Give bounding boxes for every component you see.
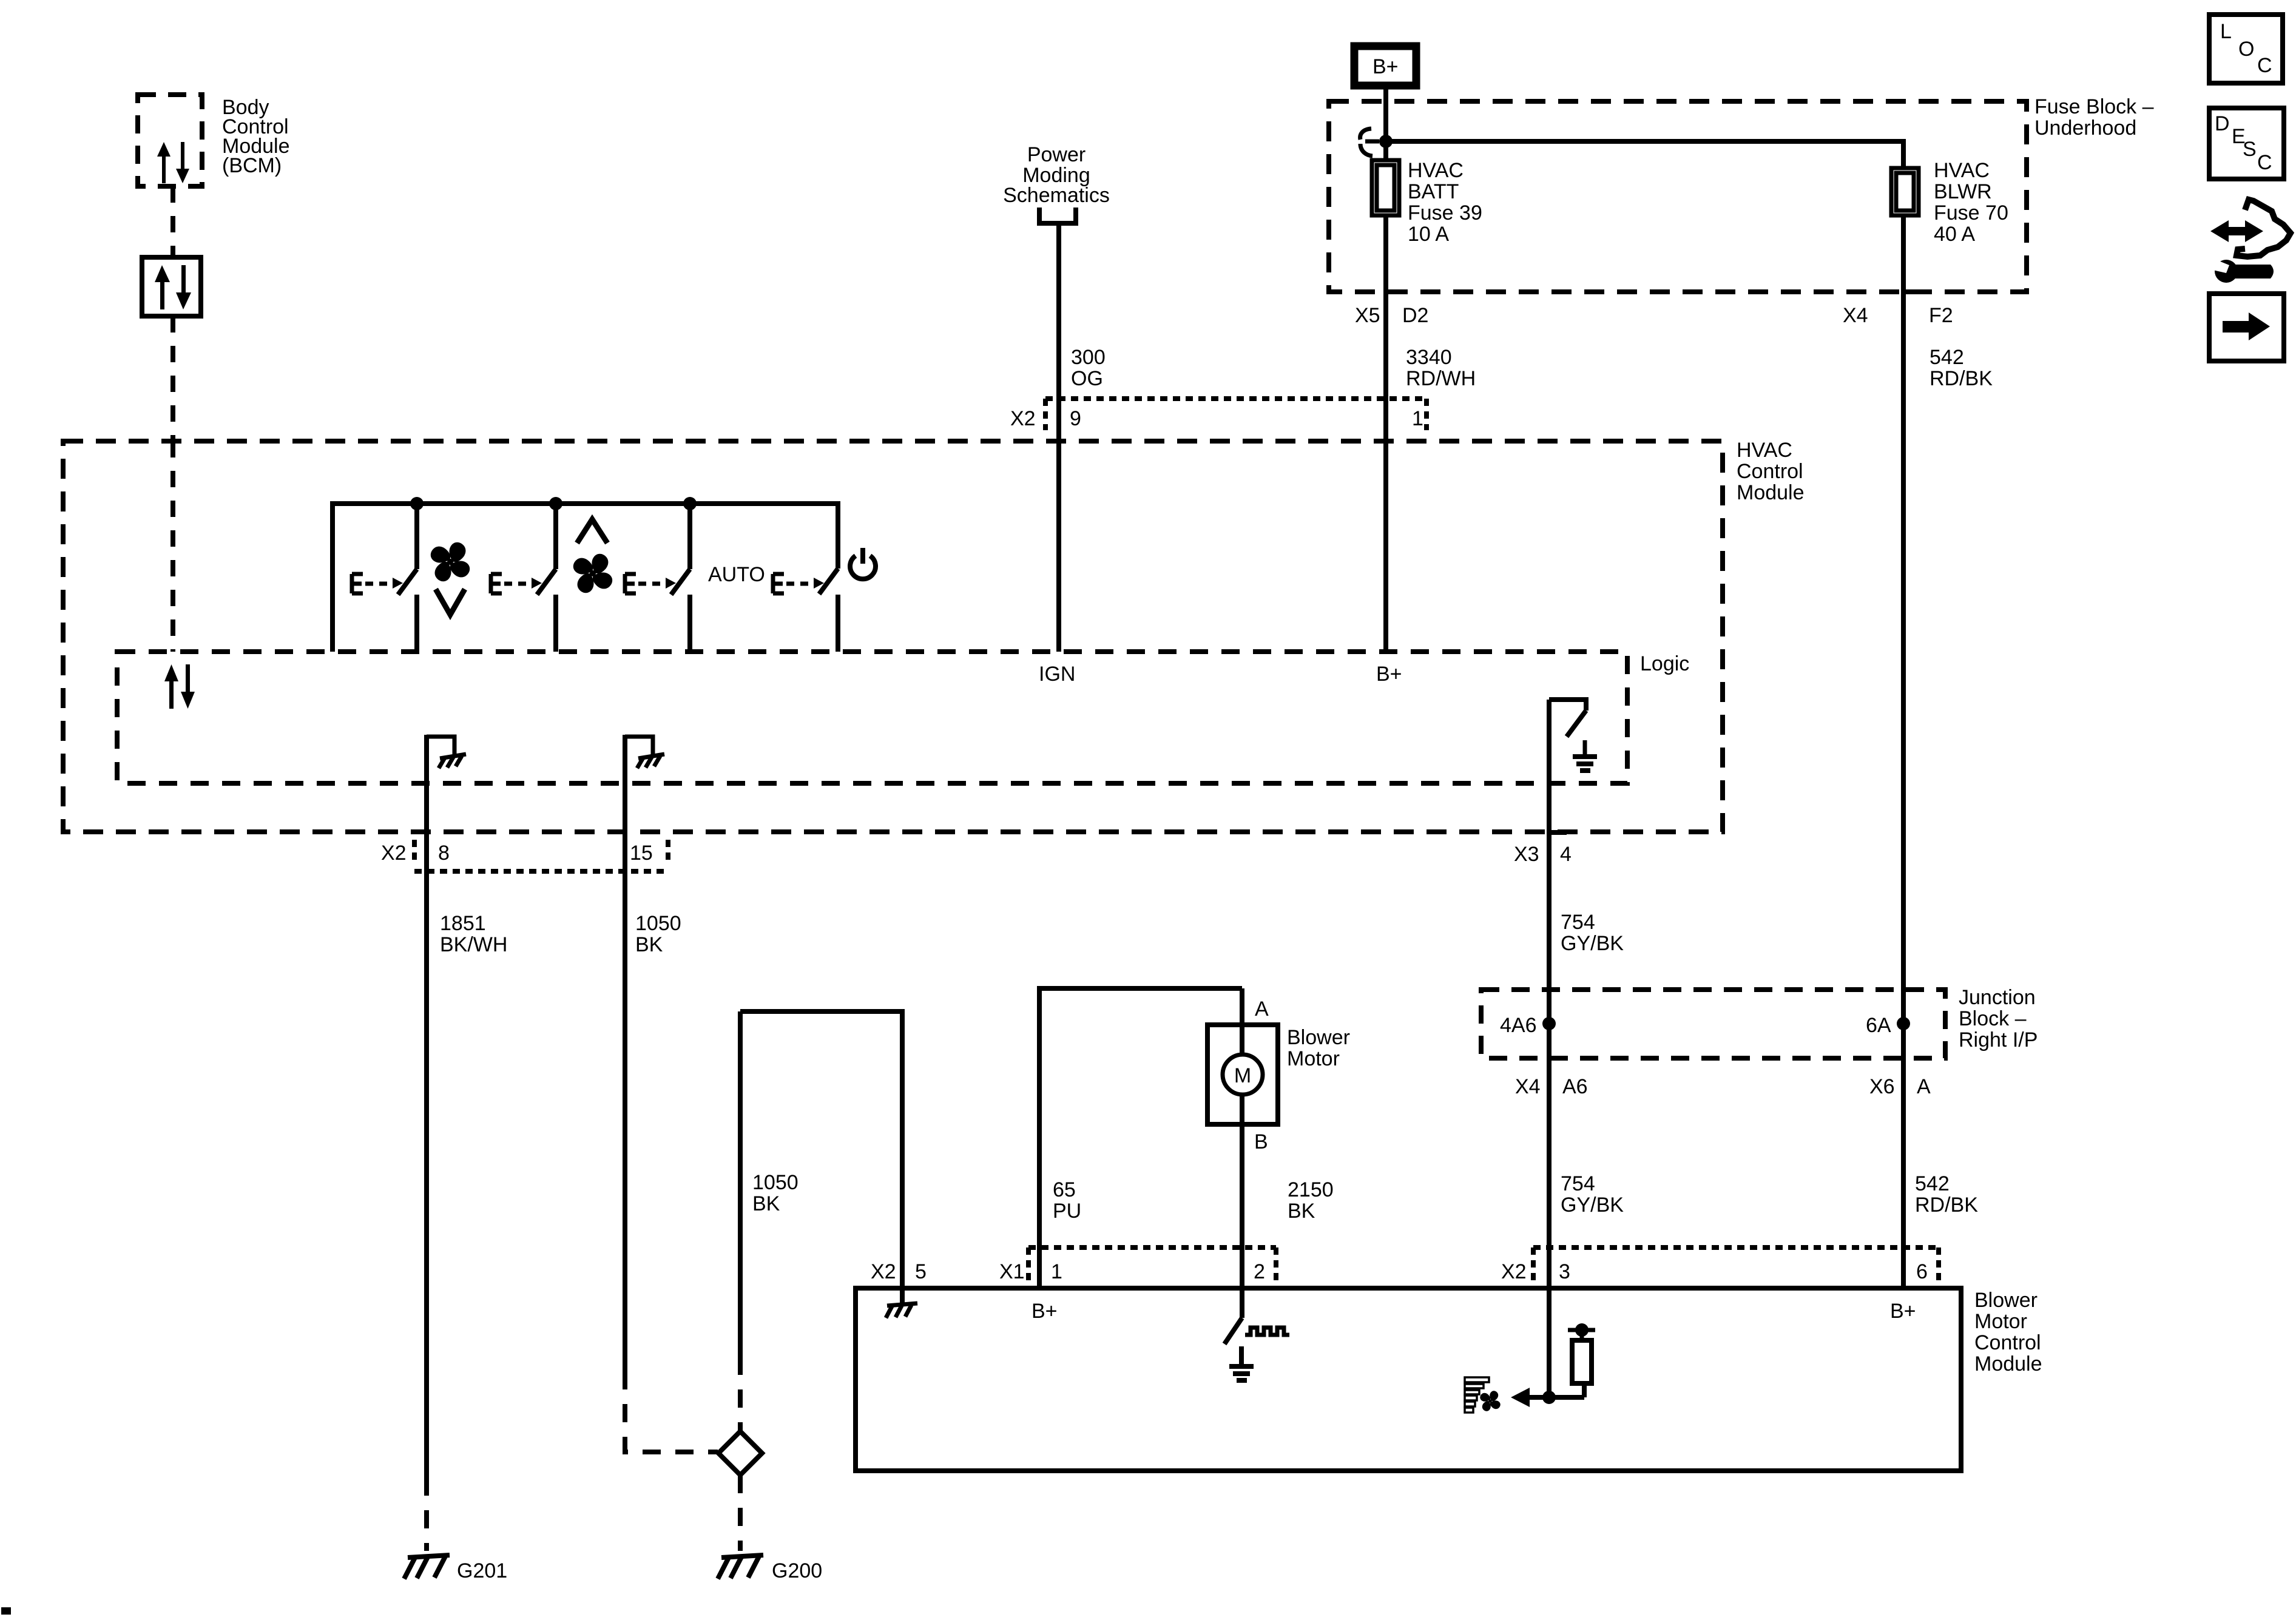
connector X3 tick <box>1551 830 1567 835</box>
svg-text:G201: G201 <box>457 1559 507 1582</box>
svg-text:3340: 3340 <box>1406 346 1452 369</box>
svg-text:Junction: Junction <box>1959 986 2036 1009</box>
wire dashed 1050 from pin15 to diamond <box>625 1371 718 1452</box>
serial data arrows inside box <box>155 265 191 309</box>
svg-text:S: S <box>2243 138 2257 161</box>
wire 65 PU loop to blower motor <box>1039 988 1242 1288</box>
junction dot 6A <box>1897 1017 1910 1030</box>
svg-text:2150: 2150 <box>1288 1178 1334 1201</box>
svg-text:X6: X6 <box>1869 1075 1895 1098</box>
label Fuse Block - Underhood <box>2034 95 2154 140</box>
switch S1 fan down <box>352 504 417 652</box>
label 1050 BK second <box>752 1171 799 1215</box>
svg-text:X4: X4 <box>1843 304 1868 327</box>
pin label B <box>1254 1130 1268 1153</box>
svg-text:BATT: BATT <box>1408 180 1459 203</box>
svg-text:B+: B+ <box>1032 1300 1058 1323</box>
svg-text:A: A <box>1917 1075 1931 1098</box>
svg-text:B+: B+ <box>1890 1300 1916 1323</box>
switch S2 fan up <box>491 504 556 652</box>
label G201 <box>457 1559 507 1582</box>
junction dot bus s1 <box>410 497 424 510</box>
splice curl symbol <box>1360 129 1373 156</box>
svg-text:C: C <box>2257 151 2272 174</box>
svg-text:X2: X2 <box>871 1260 896 1283</box>
svg-text:GY/BK: GY/BK <box>1561 932 1624 955</box>
module BCM dashed box <box>138 95 202 186</box>
label 754 GY/BK lower <box>1561 1172 1624 1217</box>
pin labels X5 D2 <box>1355 304 1428 327</box>
svg-text:Module: Module <box>1737 481 1805 504</box>
wire serial data inside HVAC module to Logic (dashed) <box>171 441 175 652</box>
icon fan 2 <box>563 544 623 604</box>
ground symbol at pin X2-5 inside module <box>886 1288 917 1318</box>
wire 2150 BK motor pin B to module <box>1240 1095 1244 1288</box>
svg-text:754: 754 <box>1561 1172 1595 1195</box>
label 1050 BK first <box>635 912 681 956</box>
svg-text:6: 6 <box>1916 1260 1928 1283</box>
splice diamond S-connector <box>718 1431 762 1475</box>
svg-text:A6: A6 <box>1562 1075 1588 1098</box>
label Blower Motor <box>1287 1026 1350 1070</box>
svg-text:BLWR: BLWR <box>1934 180 1992 203</box>
wire 1050 BK pin15 down <box>623 735 627 1371</box>
svg-text:Power: Power <box>1027 143 1086 166</box>
svg-text:300: 300 <box>1071 346 1106 369</box>
svg-text:1851: 1851 <box>440 912 486 935</box>
svg-text:M: M <box>1234 1064 1251 1087</box>
icon chevron down <box>436 589 465 615</box>
svg-text:Logic: Logic <box>1640 652 1689 675</box>
connector X2 (HVAC top) dotted box <box>1045 396 1427 401</box>
svg-text:Underhood: Underhood <box>2034 116 2136 140</box>
ground hook output pin15 inside Logic <box>625 737 664 768</box>
svg-text:1: 1 <box>1051 1260 1062 1283</box>
svg-text:6A: 6A <box>1866 1014 1891 1037</box>
blower motor box <box>1207 1025 1278 1124</box>
wire serial data BCM to box (dashed) <box>171 186 175 257</box>
icon fan with speed ramp <box>1465 1377 1506 1417</box>
svg-text:Blower: Blower <box>1974 1289 2038 1312</box>
connector X5 tick <box>1388 289 1403 294</box>
label AUTO <box>708 563 765 586</box>
svg-text:O: O <box>2238 38 2254 61</box>
svg-text:754: 754 <box>1561 911 1595 934</box>
svg-text:1050: 1050 <box>752 1171 799 1194</box>
switch S3 AUTO <box>625 504 690 652</box>
svg-text:BK: BK <box>752 1192 780 1215</box>
svg-text:X5: X5 <box>1355 304 1380 327</box>
label HVAC Control Module <box>1737 439 1805 504</box>
label B+ <box>1373 55 1399 78</box>
pin labels X2 9 1 <box>1010 407 1423 430</box>
svg-text:Control: Control <box>1737 460 1803 483</box>
wire ground loop from module pin X2-5 <box>740 1011 902 1288</box>
module HVAC Control Module dashed box <box>63 441 1723 832</box>
svg-text:1050: 1050 <box>635 912 681 935</box>
svg-text:Right I/P: Right I/P <box>1959 1028 2038 1052</box>
wire dashed 1851 to G201 <box>424 1477 429 1551</box>
svg-text:IGN: IGN <box>1039 663 1075 686</box>
label M <box>1234 1064 1251 1087</box>
label B+ at pin X2-6 <box>1890 1300 1916 1323</box>
serial data box U1 <box>142 257 201 316</box>
label Body Control Module (BCM) <box>222 96 290 177</box>
icon LOC box <box>2209 15 2283 83</box>
svg-text:1: 1 <box>1412 407 1423 430</box>
icon fan 1 <box>420 532 481 592</box>
svg-text:Motor: Motor <box>1974 1310 2027 1333</box>
fuse F70 HVAC BLWR <box>1891 168 1919 215</box>
label B+ terminal <box>1376 663 1402 686</box>
svg-text:F2: F2 <box>1929 304 1953 327</box>
icon forward arrow box <box>2209 294 2284 361</box>
svg-text:B+: B+ <box>1373 55 1399 78</box>
svg-text:Motor: Motor <box>1287 1047 1340 1070</box>
svg-text:HVAC: HVAC <box>1934 159 1990 182</box>
svg-text:X4: X4 <box>1515 1075 1541 1098</box>
svg-text:Fuse 70: Fuse 70 <box>1934 201 2008 224</box>
wire serial data box to HVAC module (dashed) <box>171 316 175 441</box>
wire 300 OG down to HVAC module <box>1056 225 1061 652</box>
wire 1050 BK mid segment <box>738 1011 743 1357</box>
svg-text:5: 5 <box>915 1260 927 1283</box>
wire 754 GY/BK logic to blower module <box>1547 700 1551 1288</box>
label HVAC BLWR Fuse 70 40 A <box>1934 159 2008 246</box>
icon power button <box>850 548 876 579</box>
label 65 PU <box>1053 1178 1081 1223</box>
svg-text:B: B <box>1254 1130 1268 1153</box>
wire switch bus <box>333 504 838 652</box>
wire dashed diamond to G200 <box>738 1475 743 1551</box>
svg-text:542: 542 <box>1930 346 1964 369</box>
svg-text:X1: X1 <box>999 1260 1025 1283</box>
svg-text:PU: PU <box>1053 1200 1081 1223</box>
pin labels X4 F2 <box>1843 304 1953 327</box>
connector X1 dotted box <box>1028 1245 1276 1250</box>
svg-text:15: 15 <box>630 842 653 865</box>
serial data arrows inside Logic <box>164 664 195 709</box>
label G200 <box>772 1559 822 1582</box>
connector X4 tick <box>1906 289 1921 294</box>
fuse F39 HVAC BATT <box>1372 160 1399 215</box>
switch to ground inside Logic (blower relay control) <box>1549 700 1597 771</box>
label Power Moding Schematics <box>1003 143 1110 207</box>
ground G200 symbol <box>718 1555 763 1579</box>
ground hook output pin8 inside Logic <box>427 737 466 768</box>
wire B+ rail to right fuse <box>1386 141 1903 168</box>
label 1851 BK/WH <box>440 912 507 956</box>
pin labels X2 8 15 <box>381 842 653 865</box>
svg-text:2: 2 <box>1254 1260 1265 1283</box>
svg-text:G200: G200 <box>772 1559 822 1582</box>
label Blower Motor Control Module <box>1974 1289 2042 1376</box>
label 300 OG <box>1071 346 1106 390</box>
svg-text:OG: OG <box>1071 367 1103 390</box>
svg-text:A: A <box>1255 998 1269 1021</box>
connector X2 (blower right) dotted box <box>1533 1245 1939 1250</box>
wire 1851 BK/WH pin8 down <box>424 735 429 1477</box>
label Junction Block - Right I/P <box>1959 986 2038 1052</box>
svg-text:9: 9 <box>1070 407 1081 430</box>
module Blower Motor Control Module box <box>856 1288 1961 1471</box>
icon chevron up <box>577 519 607 543</box>
svg-text:Blower: Blower <box>1287 1026 1350 1049</box>
junction dot at B+ splice <box>1379 135 1393 148</box>
serial data arrows inside BCM <box>157 142 189 183</box>
svg-text:Block –: Block – <box>1959 1007 2027 1030</box>
motor M circle <box>1223 1055 1263 1095</box>
label 6A <box>1866 1014 1891 1037</box>
svg-text:Fuse Block –: Fuse Block – <box>2034 95 2154 118</box>
svg-text:BK: BK <box>635 933 663 956</box>
pin label A <box>1255 998 1269 1021</box>
svg-text:Control: Control <box>1974 1331 2041 1354</box>
svg-text:4A6: 4A6 <box>1500 1014 1537 1037</box>
svg-text:65: 65 <box>1053 1178 1076 1201</box>
svg-text:L: L <box>2220 20 2232 43</box>
svg-text:542: 542 <box>1915 1172 1950 1195</box>
svg-text:X2: X2 <box>1010 407 1036 430</box>
module Junction Block - Right I/P dashed box <box>1481 990 1945 1058</box>
svg-text:BK/WH: BK/WH <box>440 933 507 956</box>
junction dot bus s2 <box>549 497 562 510</box>
svg-text:X2: X2 <box>381 842 407 865</box>
switch S4 power <box>773 569 838 652</box>
svg-text:X2: X2 <box>1501 1260 1527 1283</box>
label HVAC BATT Fuse 39 10 A <box>1408 159 1482 246</box>
svg-text:HVAC: HVAC <box>1737 439 1792 462</box>
svg-text:Schematics: Schematics <box>1003 184 1110 207</box>
ground G201 symbol <box>404 1555 450 1579</box>
svg-text:10 A: 10 A <box>1408 223 1449 246</box>
svg-text:AUTO: AUTO <box>708 563 765 586</box>
label 3340 RD/WH <box>1406 346 1476 390</box>
wire 542 RD/BK fuse70 down to blower module <box>1901 215 1906 1288</box>
icon diagnostic arrow and wrench <box>2210 200 2291 283</box>
svg-text:BK: BK <box>1288 1200 1315 1223</box>
icon DESC box <box>2209 108 2284 179</box>
svg-text:8: 8 <box>438 842 450 865</box>
module Logic dashed box <box>117 652 1627 783</box>
pin labels X4 A6 X6 A <box>1515 1075 1931 1098</box>
wire 3340 RD/WH fuse39 to HVAC module <box>1383 215 1388 652</box>
wire B+ feed down <box>1383 89 1388 160</box>
svg-text:RD/BK: RD/BK <box>1915 1193 1978 1217</box>
svg-text:40 A: 40 A <box>1934 223 1975 246</box>
svg-text:RD/WH: RD/WH <box>1406 367 1476 390</box>
PWM switch to ground inside module at pin 2 <box>1224 1288 1289 1380</box>
svg-text:HVAC: HVAC <box>1408 159 1464 182</box>
svg-text:D: D <box>2215 112 2230 135</box>
svg-text:RD/BK: RD/BK <box>1930 367 1993 390</box>
svg-text:Module: Module <box>1974 1352 2042 1376</box>
label 4A6 <box>1500 1014 1537 1037</box>
svg-text:(BCM): (BCM) <box>222 154 282 177</box>
wire dashed to diamond top <box>738 1357 743 1431</box>
junction dot 4A6 <box>1542 1017 1556 1030</box>
label 754 GY/BK upper <box>1561 911 1624 955</box>
svg-text:GY/BK: GY/BK <box>1561 1193 1624 1217</box>
label 2150 BK <box>1288 1178 1334 1223</box>
junction dot bus s3 <box>683 497 697 510</box>
svg-text:Fuse 39: Fuse 39 <box>1408 201 1482 224</box>
wire blower motor feed pin A <box>1240 988 1244 1055</box>
pin labels X3 4 <box>1514 843 1572 866</box>
pin labels X2 5 X1 1 2 X2 3 6 <box>871 1260 1928 1283</box>
svg-text:3: 3 <box>1559 1260 1570 1283</box>
off-page connector bracket <box>1039 208 1076 223</box>
module Fuse Block - Underhood dashed box <box>1329 101 2027 292</box>
page corner mark <box>1 1607 11 1615</box>
svg-text:C: C <box>2257 54 2272 77</box>
label 542 RD/BK lower <box>1915 1172 1978 1217</box>
svg-text:4: 4 <box>1560 843 1572 866</box>
svg-text:D2: D2 <box>1402 304 1428 327</box>
label Logic <box>1640 652 1689 675</box>
label B+ at pin X1-1 <box>1032 1300 1058 1323</box>
connector X2 (HVAC bottom) dotted box <box>412 840 417 862</box>
svg-text:B+: B+ <box>1376 663 1402 686</box>
label 542 RD/BK upper <box>1930 346 1993 390</box>
speed control resistor and fan inside module at pin 3 <box>1511 1288 1595 1407</box>
label IGN terminal <box>1039 663 1075 686</box>
node B+ box <box>1354 46 1416 86</box>
svg-text:X3: X3 <box>1514 843 1539 866</box>
